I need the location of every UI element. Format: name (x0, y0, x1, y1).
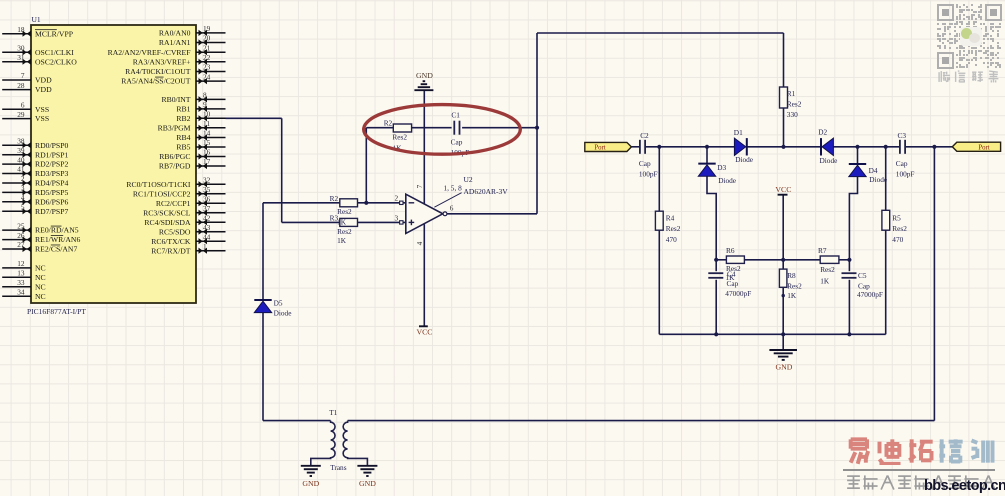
svg-text:36: 36 (203, 194, 211, 203)
svg-text:RC1/T1OSI/CCP2: RC1/T1OSI/CCP2 (133, 189, 191, 198)
diode D4 (849, 164, 887, 184)
red highlight ellipse annotation (364, 105, 521, 155)
svg-text:R2: R2 (384, 118, 393, 127)
svg-text:RE2/CS/AN7: RE2/CS/AN7 (35, 245, 77, 254)
svg-text:PIC16F877AT-I/PT: PIC16F877AT-I/PT (27, 307, 86, 316)
pin 31 (OSC2/CLKO) left (2, 53, 77, 66)
diode D3 (698, 163, 736, 185)
svg-text:R1: R1 (787, 89, 796, 98)
pin 26 (RE1/WR/AN6) left (2, 231, 80, 244)
svg-text:RB5: RB5 (176, 143, 190, 152)
resistor R6 (726, 246, 745, 282)
pin 15 (RB5) right (176, 138, 225, 151)
svg-text:RB1: RB1 (176, 105, 190, 114)
svg-text:RA4/T0CKI/C1OUT: RA4/T0CKI/C1OUT (125, 67, 191, 76)
svg-text:D1: D1 (734, 128, 743, 137)
wire feedback to R2 feedback (366, 127, 393, 129)
wire rail to R5 top (885, 147, 887, 211)
svg-text:VDD: VDD (35, 76, 52, 85)
capacitor C4 (708, 270, 751, 298)
svg-text:24: 24 (203, 72, 211, 81)
pin 42 (RC4/SDI/SDA) right (144, 213, 225, 226)
svg-text:RC4/SDI/SDA: RC4/SDI/SDA (144, 218, 191, 227)
wire D1 to D2 (747, 146, 821, 148)
wire D3 to R6 node (707, 176, 716, 260)
wire bus to GND (782, 334, 784, 350)
wire D3node to R6 (716, 259, 726, 261)
svg-text:32: 32 (203, 175, 211, 184)
svg-text:18: 18 (17, 25, 25, 34)
svg-text:RC3/SCK/SCL: RC3/SCK/SCL (143, 208, 191, 217)
wire feedback vertical (365, 128, 367, 203)
pin 7 (VDD) left (2, 71, 52, 84)
port right (952, 142, 1000, 151)
svg-text:7: 7 (21, 71, 25, 80)
svg-text:330: 330 (787, 110, 798, 119)
svg-text:41: 41 (17, 165, 25, 174)
node A junction (364, 201, 368, 205)
svg-text:R3: R3 (330, 214, 339, 223)
svg-text:23: 23 (203, 63, 211, 72)
svg-text:R2: R2 (330, 194, 339, 203)
svg-text:25: 25 (17, 221, 25, 230)
power GND bottom center (769, 350, 797, 372)
resistor R7 (818, 246, 839, 286)
power VCC below op-amp (416, 326, 432, 336)
pin 43 (RC5/SDO) right (159, 223, 226, 236)
diode D2 (818, 127, 837, 165)
svg-text:GND: GND (359, 479, 376, 488)
svg-text:6: 6 (450, 203, 454, 212)
svg-text:Diode: Diode (735, 155, 753, 164)
svg-text:NC: NC (35, 264, 46, 273)
svg-text:RD1/PSP1: RD1/PSP1 (35, 150, 68, 159)
wire R1 to main rail (783, 108, 785, 147)
wire top rail to R1 (783, 33, 785, 87)
resistor R4 (655, 211, 680, 244)
junction C2-R4 (657, 145, 661, 149)
svg-text:C4: C4 (727, 270, 736, 279)
svg-text:RA1/AN1: RA1/AN1 (159, 38, 191, 47)
watermark wechat text (938, 70, 951, 83)
wire R6 to R7 (744, 259, 820, 261)
power VCC center (775, 185, 791, 195)
junction C4-bus (714, 332, 718, 336)
wire C4 to bus (715, 280, 717, 335)
resistor R2 input (330, 194, 358, 216)
wire R8 to bus (782, 287, 784, 334)
pin 19 (RA0/AN0) right (159, 24, 226, 37)
wire bottom bus (659, 333, 885, 335)
junction C5-bus (847, 332, 851, 336)
svg-text:RC0/T1OSO/T1CKI: RC0/T1OSO/T1CKI (126, 180, 191, 189)
svg-text:VCC: VCC (775, 185, 791, 194)
pin 28 (VDD) left (2, 81, 52, 94)
svg-text:Res2: Res2 (787, 100, 802, 109)
svg-text:RA5/AN4/SS/C2OUT: RA5/AN4/SS/C2OUT (121, 77, 191, 86)
svg-text:43: 43 (203, 223, 211, 232)
svg-text:26: 26 (17, 231, 25, 240)
svg-text:T1: T1 (329, 408, 337, 417)
wire node A down to D5 (262, 203, 264, 300)
junction rail-D4 (855, 145, 859, 149)
svg-text:4: 4 (21, 193, 25, 202)
svg-text:MCLR/VPP: MCLR/VPP (35, 29, 73, 38)
wire D5 to bottom rail (262, 313, 264, 421)
svg-text:RD2/PSP2: RD2/PSP2 (35, 160, 68, 169)
svg-text:10: 10 (203, 110, 211, 119)
svg-text:RB6/PGC: RB6/PGC (159, 152, 190, 161)
watermark underline (843, 469, 995, 471)
svg-text:Res2: Res2 (820, 265, 835, 274)
svg-text:100pF: 100pF (639, 170, 658, 179)
svg-text:RB3/PGM: RB3/PGM (158, 123, 191, 132)
pin 17 (RB7/PGD) right (159, 157, 226, 170)
svg-text:C1: C1 (451, 111, 460, 120)
wire bottom rail left segment (263, 420, 331, 422)
svg-text:3: 3 (394, 213, 398, 222)
svg-text:470: 470 (666, 235, 677, 244)
svg-text:RB7/PGD: RB7/PGD (159, 162, 191, 171)
svg-text:GND: GND (776, 363, 793, 372)
wire node A to R2 left (263, 202, 340, 204)
capacitor C1 (451, 111, 470, 158)
wire rail to D3 (706, 147, 708, 164)
svg-text:4: 4 (415, 241, 424, 245)
svg-text:RC5/SDO: RC5/SDO (159, 227, 191, 236)
svg-text:34: 34 (17, 287, 25, 296)
svg-text:NC: NC (35, 282, 46, 291)
watermark bbs.eetop.cn (924, 478, 1004, 494)
svg-text:AD620AR-3V: AD620AR-3V (464, 187, 509, 196)
svg-text:Res2: Res2 (392, 132, 407, 141)
svg-text:RE1/WR/AN6: RE1/WR/AN6 (35, 235, 80, 244)
svg-text:1K: 1K (820, 277, 830, 286)
svg-text:Cap: Cap (727, 279, 739, 288)
wire vertical RB2 down (281, 118, 283, 222)
svg-text:Res2: Res2 (892, 224, 907, 233)
junction R1-rail (781, 145, 785, 149)
svg-text:37: 37 (203, 204, 211, 213)
svg-text:C2: C2 (640, 131, 649, 140)
wire to R3 left (282, 221, 340, 223)
svg-text:12: 12 (17, 259, 25, 268)
svg-text:GND: GND (302, 479, 319, 488)
svg-text:Port: Port (594, 145, 605, 152)
svg-text:Diode: Diode (820, 156, 838, 165)
pin 38 (RD0/PSP0) left (2, 136, 68, 149)
pin 35 (RC1/T1OSI/CCP2) right (133, 185, 226, 198)
svg-text:22: 22 (203, 53, 211, 62)
pin 11 (RB3/PGM) right (158, 119, 226, 132)
wire top rail (537, 32, 784, 34)
svg-text:Cap: Cap (639, 159, 651, 168)
junction feedback-output (535, 126, 539, 130)
svg-text:20: 20 (203, 34, 211, 43)
svg-text:Res2: Res2 (787, 281, 802, 290)
svg-text:Res2: Res2 (337, 207, 352, 216)
svg-text:15: 15 (203, 138, 211, 147)
pin 3 (RD5/PSP5) left (2, 184, 68, 197)
svg-text:RA0/AN0: RA0/AN0 (159, 29, 191, 38)
svg-text:Diode: Diode (869, 175, 887, 184)
wire rail to R4 (658, 147, 660, 211)
svg-text:Trans: Trans (330, 463, 347, 472)
svg-text:Port: Port (978, 144, 989, 151)
pin 23 (RA4/T0CKI/C1OUT) right (125, 63, 225, 76)
svg-text:1K: 1K (787, 291, 797, 300)
IC U1 PIC16F877AT-I/PT body (31, 25, 196, 303)
svg-text:Res2: Res2 (337, 227, 352, 236)
svg-text:39: 39 (17, 146, 25, 155)
svg-text:Cap: Cap (451, 137, 463, 146)
wire R4 to bottom bus (658, 230, 660, 334)
svg-text:42: 42 (203, 213, 211, 222)
svg-text:47000pF: 47000pF (857, 290, 883, 299)
wire R3 to op-amp pin 3 (358, 221, 406, 223)
svg-text:3: 3 (21, 184, 25, 193)
svg-text:16: 16 (203, 148, 211, 157)
transformer T1 (311, 408, 368, 472)
wire C1 to output riser (462, 127, 537, 129)
pin 29 (VSS) left (2, 110, 49, 123)
svg-text:100pF: 100pF (896, 170, 915, 179)
watermark eetop logo text (846, 437, 874, 465)
svg-text:RC2/CCP1: RC2/CCP1 (156, 199, 191, 208)
svg-text:5: 5 (21, 203, 25, 212)
svg-text:D3: D3 (717, 163, 726, 172)
junction rail-riser (932, 145, 936, 149)
svg-text:44: 44 (203, 232, 211, 241)
svg-text:R8: R8 (787, 271, 796, 280)
resistor R3 input (330, 214, 358, 245)
pin 44 (RC6/TX/CK) right (151, 232, 225, 245)
wire GND to op-amp pin 7 (423, 90, 425, 203)
wire C5 to bus (848, 280, 850, 335)
power GND transformer right (357, 466, 377, 488)
svg-text:VSS: VSS (35, 114, 49, 123)
svg-text:27: 27 (17, 240, 25, 249)
wire op-amp pin 4 to VCC (423, 224, 425, 326)
svg-text:R7: R7 (818, 246, 827, 255)
pin 24 (RA5/AN4/SS/C2OUT) right (121, 72, 225, 85)
junction GND-bus (781, 332, 785, 336)
svg-text:RD7/PSP7: RD7/PSP7 (35, 207, 68, 216)
svg-text:NC: NC (35, 273, 46, 282)
svg-text:1K: 1K (337, 236, 347, 245)
junction rail-R5 (884, 145, 888, 149)
svg-text:RC6/TX/CK: RC6/TX/CK (151, 237, 191, 246)
wire R2 to op-amp pin 2 (358, 202, 406, 204)
svg-text:RD4/PSP4: RD4/PSP4 (35, 179, 68, 188)
wire node to C5 (848, 260, 850, 271)
wire output riser (536, 33, 538, 214)
pin 30 (OSC1/CLKI) left (2, 44, 74, 57)
pin 10 (RB2) right (176, 110, 225, 123)
pin 1 (RC7/RX/DT) right (151, 242, 225, 255)
wire R2 feedback to C1 (412, 127, 452, 129)
pin 20 (RA1/AN1) right (159, 34, 226, 47)
svg-text:17: 17 (203, 157, 211, 166)
svg-text:2: 2 (21, 174, 25, 183)
wire node to R8 (782, 260, 784, 269)
wire D2 to C3 (830, 146, 900, 148)
pin 36 (RC2/CCP1) right (156, 194, 226, 207)
svg-text:VCC: VCC (416, 328, 432, 337)
svg-text:40: 40 (17, 155, 25, 164)
svg-text:Diode: Diode (718, 176, 736, 185)
svg-text:19: 19 (203, 24, 211, 33)
svg-text:11: 11 (203, 119, 210, 128)
op-amp U2 AD620AR-3V (394, 175, 508, 245)
pin 32 (RC0/T1OSO/T1CKI) right (126, 175, 225, 188)
pin 22 (RA3/AN3/VREF+) right (133, 53, 226, 66)
svg-text:RB2: RB2 (176, 114, 190, 123)
svg-text:OSC1/CLKI: OSC1/CLKI (35, 48, 74, 57)
svg-text:RD5/PSP5: RD5/PSP5 (35, 188, 68, 197)
pin 21 (RA2/AN2/VREF-/CVREF) right (108, 43, 226, 56)
svg-text:Diode: Diode (274, 308, 292, 317)
svg-text:RA3/AN3/VREF+: RA3/AN3/VREF+ (133, 57, 191, 66)
port left (585, 142, 632, 151)
junction rail-D3 (705, 145, 709, 149)
pin 14 (RB4) right (176, 129, 225, 142)
svg-text:1K: 1K (337, 218, 347, 227)
resistor R8 (779, 269, 802, 300)
svg-text:Cap: Cap (896, 159, 908, 168)
svg-text:33: 33 (17, 278, 25, 287)
svg-text:1, 5, 8: 1, 5, 8 (444, 184, 463, 193)
diode D1 (734, 128, 753, 164)
wire bottom rail long segment (348, 420, 935, 422)
svg-text:28: 28 (17, 81, 25, 90)
svg-text:35: 35 (203, 185, 211, 194)
pin 2 (RD4/PSP4) left (2, 174, 68, 187)
pin 25 (RE0/RD/AN5) left (2, 221, 79, 234)
power GND above op-amp (414, 71, 433, 90)
svg-text:RD0/PSP0: RD0/PSP0 (35, 141, 68, 150)
svg-text:Cap: Cap (858, 281, 870, 290)
pin 39 (RD1/PSP1) left (2, 146, 68, 159)
svg-text:GND: GND (416, 71, 433, 80)
wire C3 to right port (905, 146, 952, 148)
wire node to C4 (715, 260, 717, 271)
svg-text:OSC2/CLKO: OSC2/CLKO (35, 57, 77, 66)
resistor R2 feedback (384, 118, 412, 152)
watermark wechat icon (960, 27, 982, 46)
svg-text:Res2: Res2 (666, 224, 681, 233)
svg-text:1: 1 (203, 242, 207, 251)
pin 13 (NC) left (2, 269, 45, 282)
svg-text:RA2/AN2/VREF-/CVREF: RA2/AN2/VREF-/CVREF (108, 48, 191, 57)
wire RB2 pin10 to node (226, 117, 282, 119)
svg-text:VDD: VDD (35, 85, 52, 94)
wire op-amp output (447, 213, 537, 215)
svg-text:6: 6 (21, 100, 25, 109)
svg-text:30: 30 (17, 44, 25, 53)
pin 40 (RD2/PSP2) left (2, 155, 68, 168)
wire R7 right (839, 259, 850, 261)
capacitor C2 (639, 131, 658, 178)
svg-text:8: 8 (203, 91, 207, 100)
svg-text:31: 31 (17, 53, 25, 62)
capacitor C3 (896, 131, 915, 178)
junction R7-C5 node (847, 258, 851, 262)
svg-text:D4: D4 (869, 166, 878, 175)
svg-text:U1: U1 (32, 15, 41, 24)
pin 34 (NC) left (2, 287, 45, 300)
svg-text:RC7/RX/DT: RC7/RX/DT (151, 246, 191, 255)
svg-text:NC: NC (35, 292, 46, 301)
svg-text:13: 13 (17, 269, 25, 278)
svg-text:RB4: RB4 (176, 133, 190, 142)
svg-text:C3: C3 (898, 131, 907, 140)
svg-text:R5: R5 (892, 214, 901, 223)
diode D5 (254, 298, 291, 317)
watermark slogan text (845, 474, 862, 491)
pin 4 (RD6/PSP6) left (2, 193, 68, 206)
svg-text:7: 7 (415, 184, 424, 188)
svg-text:RD6/PSP6: RD6/PSP6 (35, 197, 68, 206)
svg-text:C5: C5 (858, 271, 867, 280)
junction center node (781, 258, 785, 262)
pin 41 (RD3/PSP3) left (2, 165, 68, 178)
junction below R8 (782, 294, 785, 297)
capacitor C5 (842, 271, 883, 299)
svg-text:R4: R4 (666, 214, 675, 223)
watermark QR code top right (937, 4, 1002, 69)
svg-text:470: 470 (892, 235, 903, 244)
wire port to C2 (631, 146, 640, 148)
wire C2 to D1 (645, 146, 735, 148)
pin 9 (RB1) right (176, 100, 225, 113)
svg-text:29: 29 (17, 110, 25, 119)
wire bus to R5 (885, 230, 887, 334)
svg-text:21: 21 (203, 43, 211, 52)
svg-text:RE0/RD/AN5: RE0/RD/AN5 (35, 226, 79, 235)
svg-text:2: 2 (394, 194, 398, 203)
svg-text:D2: D2 (818, 127, 827, 136)
svg-text:R6: R6 (726, 246, 735, 255)
pin 33 (NC) left (2, 278, 45, 291)
svg-text:47000pF: 47000pF (725, 289, 751, 298)
pin 37 (RC3/SCK/SCL) right (143, 204, 225, 217)
pin 27 (RE2/CS/AN7) left (2, 240, 77, 253)
resistor R1 (780, 87, 802, 119)
junction R6-C4 node (714, 258, 718, 262)
svg-text:RB0/INT: RB0/INT (161, 95, 190, 104)
svg-text:14: 14 (203, 129, 211, 138)
pin 5 (RD7/PSP7) left (2, 203, 68, 216)
svg-text:VSS: VSS (35, 105, 49, 114)
svg-text:38: 38 (17, 136, 25, 145)
resistor R5 (882, 210, 907, 244)
wire VCC to center node (782, 195, 784, 260)
pin 12 (NC) left (2, 259, 45, 272)
pin 6 (VSS) left (2, 100, 49, 113)
svg-text:D5: D5 (274, 298, 283, 307)
power GND transformer left (301, 466, 321, 488)
wire D4 to R7 node (849, 177, 857, 260)
pin 16 (RB6/PGC) right (159, 148, 225, 161)
wire right riser to port node (933, 147, 935, 421)
svg-text:U2: U2 (464, 175, 473, 184)
pin 8 (RB0/INT) right (161, 91, 225, 104)
svg-text:9: 9 (203, 100, 207, 109)
wire rail to D4 (857, 147, 859, 164)
pin 18 (MCLR/VPP) left (2, 25, 73, 38)
svg-text:RD3/PSP3: RD3/PSP3 (35, 169, 68, 178)
